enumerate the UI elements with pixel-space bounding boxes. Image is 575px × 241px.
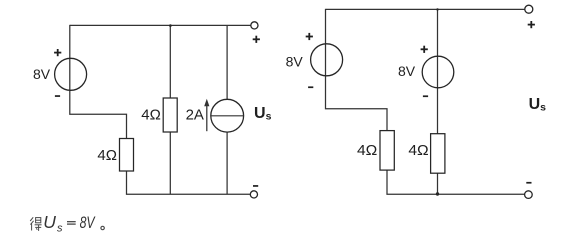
svg-text:8V: 8V — [398, 63, 416, 79]
svg-text:2A: 2A — [186, 107, 204, 124]
svg-text:8V: 8V — [286, 54, 304, 70]
svg-text:8V: 8V — [33, 66, 51, 82]
svg-text:Us: Us — [529, 96, 547, 114]
svg-text:8V: 8V — [80, 213, 96, 232]
svg-text:4Ω: 4Ω — [141, 107, 161, 124]
svg-text:4Ω: 4Ω — [357, 142, 377, 159]
svg-text:4Ω: 4Ω — [408, 142, 428, 159]
svg-text:Us: Us — [254, 105, 272, 123]
svg-text:s: s — [57, 223, 63, 235]
svg-text:4Ω: 4Ω — [97, 147, 117, 164]
svg-text:U: U — [43, 212, 56, 232]
